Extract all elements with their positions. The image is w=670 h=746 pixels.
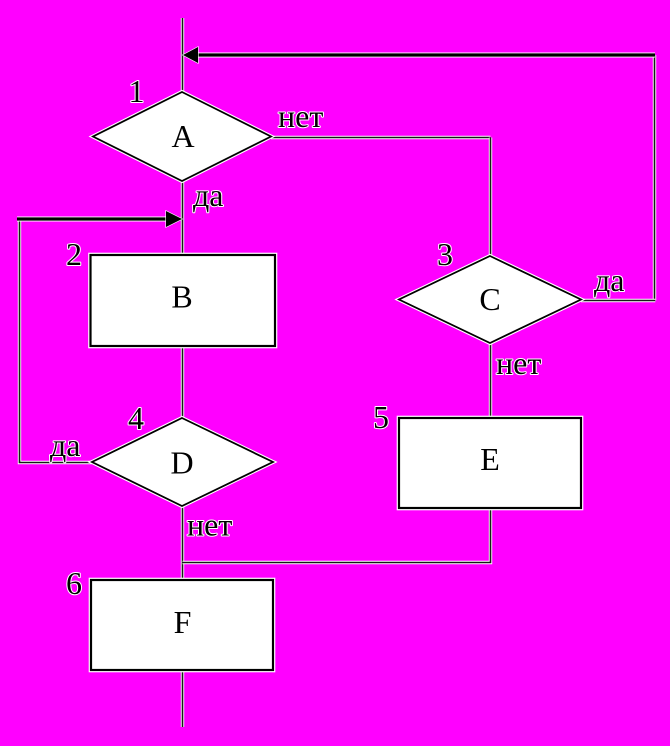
svg-text:4: 4 [128,400,144,436]
svg-text:да: да [193,177,223,213]
svg-text:да: да [594,262,624,298]
wire: C nyet vertical into E [489,343,492,418]
svg-text:B: B [171,279,192,315]
process E (rectangle) [399,418,581,508]
svg-text:C: C [479,281,500,317]
svg-text:нет: нет [187,507,232,543]
wire: C da horizontal [581,299,655,302]
process B (rectangle) [91,255,276,346]
wire: D da left and up [20,219,93,463]
process F (rectangle) [91,580,273,670]
arrowhead: loop return pointing left into entry wire [183,47,198,63]
wire: A nyet horizontal to C [271,136,491,139]
svg-text:да: да [50,427,80,463]
wire: loop return right vertical (from C da corner up) [653,55,656,301]
svg-text:2: 2 [66,236,82,272]
wire: F exit bottom [181,670,184,727]
arrowhead: D da pointing right [166,211,182,227]
decision C (diamond) [399,256,581,343]
svg-text:1: 1 [129,73,145,109]
wire: A da vertical into B [181,181,184,255]
wire: A nyet vertical down to C top [489,138,492,257]
arrow: D da thick shaft into A-B wire [17,217,167,222]
arrow: loop return top thick shaft [197,53,655,58]
wire: entry line into decision A [181,18,184,92]
svg-text:нет: нет [496,345,541,381]
wire: E exit down then left to F entry [183,508,491,563]
svg-text:6: 6 [66,565,82,601]
svg-text:5: 5 [373,399,389,435]
svg-text:нет: нет [278,98,323,134]
wire: D nyet vertical into F [181,506,184,580]
svg-text:E: E [480,441,500,477]
decision A (diamond) [93,92,271,181]
decision D (diamond) [92,418,273,506]
svg-text:3: 3 [437,236,453,272]
svg-text:F: F [174,604,192,640]
wire: B to D [181,346,184,418]
svg-text:A: A [171,118,194,154]
svg-text:D: D [170,445,193,481]
